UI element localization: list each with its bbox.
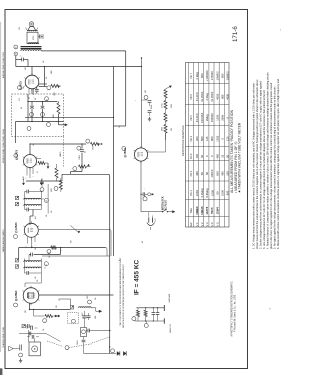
svg-text:a~: a~ [269,306,271,309]
circled ref 21 [111,349,115,353]
svg-text:13: 13 [46,200,48,202]
dashed enclosure filter section [12,94,64,137]
svg-text:C16: C16 [19,98,21,101]
electrolytic C16A [31,102,33,106]
svg-text:V 4: V 4 [210,222,214,227]
svg-text:600: 600 [215,171,219,176]
tube V2 12BA6 [24,223,38,237]
wire right loop [60,248,62,255]
svg-text:T2: T2 [43,198,45,200]
circled ref V3 [14,154,18,158]
capacitor C19 line bypass [141,193,143,195]
wire divider to rectifier [165,133,167,152]
power plug prongs [148,218,150,223]
ground arrow R2 [58,315,59,317]
svg-text:3: 3 [44,322,46,323]
svg-text:PM: PM [19,27,21,30]
svg-text:CHASSIS 25BR-1542B: CHASSIS 25BR-1542B [2,327,5,348]
wire B plus right column [141,58,143,148]
tube V3 12AT6 [24,155,37,168]
circled ref 22 [132,317,136,321]
svg-text:Tube: Tube [190,207,193,213]
svg-text:+: + [144,188,146,190]
resistance readings table grid [186,63,230,228]
svg-text:GANG ANT: GANG ANT [168,294,171,303]
svg-text:.02: .02 [43,61,45,63]
resistor R10 vertical [59,181,62,190]
dashed gang link [47,341,63,347]
svg-text:600: 600 [221,73,225,78]
wire T2 right vertical [47,184,49,214]
svg-text:.05: .05 [37,280,39,282]
wire y181 AF line [26,180,62,182]
svg-text:40-40: 40-40 [151,105,153,109]
T1 slug bottom [15,265,18,268]
capacitor C3 in line [28,332,30,336]
svg-text:.05: .05 [95,298,97,300]
svg-text:171-6: 171-6 [232,26,239,42]
T2 secondary coil [24,205,42,206]
circled ref V1 [14,303,18,307]
svg-text:Ⓟ 12BA6: Ⓟ 12BA6 [14,222,18,233]
scan edge mark bottom-left [0,369,2,375]
svg-text:6.8Meg: 6.8Meg [205,188,209,197]
svg-text:460: 460 [221,171,225,176]
svg-text:660: 660 [210,136,214,141]
svg-text:AVC: AVC [34,215,37,219]
long wire heater bus [16,66,142,68]
wire osc to arrow [91,307,96,309]
wire grid line y144 [30,143,86,145]
svg-text:10MEG: 10MEG [225,71,229,80]
wire V2 cathode down [31,239,33,247]
svg-text:~-: ~- [279,28,282,31]
resistor R12 vertical [164,90,167,99]
dashed link to tuning [69,344,92,348]
circled ref 1 [19,353,23,357]
capacitor C7 below tube [41,178,43,182]
svg-text:22K: 22K [59,297,61,301]
dashed box osc [67,313,78,324]
svg-text:AIRLINE 25BR-1542B CONT.: AIRLINE 25BR-1542B CONT. [2,51,5,78]
svg-text:Ⓢ 35W4: Ⓢ 35W4 [123,148,127,158]
circled ref 15C [47,123,51,127]
svg-text:1000: 1000 [162,127,164,131]
svg-text:T1: T1 [45,267,47,269]
svg-text:7: 7 [34,97,36,98]
V4 pin 4 stub [28,89,30,94]
resistor R9 with arrow [51,85,60,88]
svg-text:V 5: V 5 [215,222,219,227]
svg-text:100: 100 [225,171,229,176]
svg-text:2: 2 [67,349,69,350]
dashed link box to volume [63,137,65,168]
ground arrow left T2 [23,179,25,183]
circled ref 20 [71,319,75,323]
T1 secondary coil [24,267,42,268]
svg-text:0: 0 [210,155,214,157]
svg-text:1300: 1300 [215,114,219,120]
svg-text:© Howard W. Sams & Co., Inc. 1: © Howard W. Sams & Co., Inc. 1952 [234,294,237,332]
osc coil winding [79,307,92,308]
svg-text:30: 30 [21,107,23,109]
wire to resistor [39,86,47,88]
scan edge strip left [0,22,1,352]
svg-text:6. Measured with volume contr: 6. Measured with volume control at maxim… [277,78,280,249]
circled ref T1 [44,262,48,266]
capacitor C4 plates [82,315,86,317]
T2 primary coil [24,198,42,199]
svg-text:SPKR: SPKR [33,35,35,40]
svg-text:.047: .047 [145,90,147,93]
capacitor C9 [30,253,32,257]
T3 primary coil [28,43,38,44]
wire osc box down [83,337,85,340]
svg-text:4050: 4050 [225,93,229,99]
svg-text:470: 470 [25,67,27,70]
svg-text:220: 220 [35,247,37,250]
svg-text:100K: 100K [51,69,53,74]
circled ref 17 speaker plug [14,45,18,49]
T3 core laminations [21,46,42,48]
svg-text:2 Meg: 2 Meg [205,93,209,101]
circled ref 16 [27,127,31,131]
wire bus vertical x109.7 [109,176,111,354]
svg-text:260: 260 [195,136,199,141]
capacitor C8 bottom [25,272,27,274]
wire bus horizontal y174.3 [62,174,110,176]
wire bottom b-minus [84,353,117,355]
T1 primary coil [24,261,42,262]
T1 slug top [15,259,18,262]
svg-text:12AT6: 12AT6 [205,206,209,214]
svg-text:Ⓞ 12BE6: Ⓞ 12BE6 [14,290,18,301]
svg-text:43.2K0: 43.2K0 [195,113,199,122]
svg-text:Pin 5: Pin 5 [190,114,193,120]
arrow top of divider [166,87,171,90]
tube V1 12BE6 [23,288,39,304]
svg-text:12: 12 [49,252,51,254]
svg-text:100K0: 100K0 [210,169,214,177]
svg-text:0: 0 [205,155,209,157]
svg-text:Ⓥ 50C5: Ⓥ 50C5 [19,81,23,90]
svg-text:330: 330 [25,310,27,313]
svg-text:50: 50 [35,98,37,100]
arrow line bypass [151,193,152,195]
antenna coupling cap [19,345,21,351]
svg-text:150000: 150000 [210,113,214,122]
svg-text:22K0: 22K0 [195,189,199,196]
circled ref 25 [143,197,147,201]
svg-text:12: 12 [119,126,121,128]
wire AC switch [141,211,163,213]
svg-text:280k: 280k [221,114,225,120]
gang rail bottom terminal [163,318,165,323]
svg-text:SW: SW [71,240,73,243]
bus wire y256 [42,255,110,257]
svg-text:THE COMPONENTS OF THIS RECEIVE: THE COMPONENTS OF THIS RECEIVER HAVE BEE… [119,257,122,326]
svg-text:A PHOTOFACT STANDARD NOTATION: A PHOTOFACT STANDARD NOTATION SCHEMATIC [231,281,234,337]
wire exit left down [15,122,17,144]
volume control R5 [81,160,83,167]
resistor R14 vertical [164,113,167,122]
svg-text:2: 2 [21,56,23,57]
T2 side wire left [24,192,26,210]
T1 side wire left [24,259,26,274]
svg-text:1000: 1000 [221,190,225,196]
svg-text:460: 460 [215,154,219,159]
circled ref 11 [45,97,49,101]
wire bus join [114,125,126,127]
vertical wire plate feed [44,67,46,87]
svg-text:SERVICE ACCESS IF MOUNTED AS S: SERVICE ACCESS IF MOUNTED AS SHOWN ON TH… [122,263,125,328]
tube V4 50C5 [25,75,39,89]
svg-text:11: 11 [46,264,48,266]
ground antenna [20,359,22,361]
diode load parts right of tube [37,158,42,160]
svg-text:AC: AC [141,240,144,243]
T2 side wire right [40,192,42,210]
V4 pin 7 stub [33,89,35,95]
resistor R13 vertical [164,101,167,110]
capacitor C17 [142,99,148,101]
rectifier mark A [117,352,120,356]
wire bottom bus of box [16,121,64,123]
svg-text:.05: .05 [46,215,48,217]
svg-text:35W4: 35W4 [215,207,219,215]
svg-text:AC PLUG: AC PLUG [165,200,168,211]
svg-text:1000: 1000 [210,190,214,196]
wire V4 plate up [31,67,33,76]
svg-text:0: 0 [221,138,225,140]
svg-text:7: 7 [36,245,38,246]
svg-text:12BA6: 12BA6 [200,206,204,215]
bus wire y229.5 [39,229,110,231]
circled ref 19 [88,300,92,304]
svg-text:+: + [135,100,137,101]
circled ref V5 [122,147,126,151]
gang section cap A [152,308,154,313]
capacitor C14 below tube [36,88,38,90]
wire V5 down [140,161,142,212]
svg-text:Pin 1: Pin 1 [190,190,193,196]
gang section cap B [157,308,159,313]
svg-text:33: 33 [221,154,225,157]
svg-text:150: 150 [23,86,25,89]
svg-text:12BE6: 12BE6 [195,206,199,215]
wire V3 plate up [29,144,31,154]
svg-text:60: 60 [200,172,204,175]
svg-text:660: 660 [200,136,204,141]
wire switch area [71,226,80,234]
svg-text:1305: 1305 [215,135,219,141]
svg-text:1: 1 [20,356,22,357]
capacitor C5 [81,144,83,149]
junction circled ref 9 [47,86,51,90]
wire plug down [15,56,17,67]
svg-text:1300: 1300 [171,104,173,108]
circled ref 14 [144,95,148,99]
capacitor C1a [26,327,29,329]
capacitor C13 bottom [25,209,27,211]
circled ref T2 [44,198,48,202]
svg-text:2 Meg: 2 Meg [195,72,199,80]
switch lever [163,209,167,212]
circled ref 15B [41,113,45,117]
svg-text:Ⓤ 12AT6: Ⓤ 12AT6 [15,149,19,160]
svg-text:10MEG: 10MEG [215,71,219,80]
T1 side wire right [40,259,42,274]
svg-text:8: 8 [42,191,44,192]
svg-text:150.9K4: 150.9K4 [200,112,204,123]
wire volume to bus [71,171,83,173]
circled ref 5 [77,146,81,150]
svg-text:50C5: 50C5 [210,207,214,214]
svg-text:150: 150 [195,154,199,159]
svg-text:1: 1 [25,178,27,179]
svg-text:50: 50 [225,154,229,157]
T3 secondary coil [21,50,41,51]
circled ref V2 [14,235,18,239]
svg-text:OSC: OSC [82,312,84,316]
svg-text:9: 9 [49,89,51,90]
T2 slug top [15,196,18,199]
svg-text:INTERLOCK: INTERLOCK [161,196,164,210]
wire y283 [25,282,41,284]
circled ref 3 [43,319,47,323]
wire y309.5 long [30,309,71,311]
circled ref 10 [54,187,58,191]
osc coil slug [70,306,73,309]
svg-text:170000: 170000 [210,71,214,80]
B+ arrow out of box [58,122,60,125]
wire AVC bus horizontal [25,116,114,118]
capacitor osc out [87,329,89,333]
wire T2 to V2 grid [32,210,34,217]
svg-text:6: 6 [88,142,90,143]
svg-text:60: 60 [215,191,219,194]
svg-text:7: 7 [75,170,77,171]
T2 slug bottom [15,202,18,205]
resistor mark right of C4 [88,313,90,316]
V3 pin stubs [26,167,28,175]
gang rail top [136,307,164,309]
wire V4 cathode down into dashed box [31,89,33,94]
circled ref 6 [86,139,90,143]
svg-text:Pin 3: Pin 3 [190,153,193,159]
svg-text:2Meg: 2Meg [205,114,209,121]
svg-text:41.2K0: 41.2K0 [195,92,199,101]
svg-text:GANG OSC: GANG OSC [169,323,172,333]
arrow AC out [167,211,172,213]
svg-text:150K: 150K [54,91,56,96]
svg-text:880: 880 [221,94,225,99]
circled ref 18 [14,52,18,56]
wire bus corner down [125,51,127,126]
svg-text:.05: .05 [85,151,87,153]
svg-text:.02: .02 [46,77,48,79]
resistor R7 vertical [55,168,58,178]
circled ref 24 [148,193,151,196]
svg-text:.01: .01 [33,144,35,146]
svg-text:.005: .005 [95,316,97,319]
speaker mounting screw [29,22,33,26]
svg-text:.01: .01 [43,329,45,331]
osc slug box [22,324,25,327]
speaker cone [28,27,37,32]
svg-text:V 3: V 3 [205,222,209,227]
svg-text:2.2Meg: 2.2Meg [200,188,204,197]
svg-text:47: 47 [37,171,39,173]
ground arrow det [47,163,49,166]
gang trimmer coil B [145,308,147,310]
svg-text:40: 40 [29,97,31,99]
wire osc grid y333.5 [19,333,46,335]
svg-text:WARDS AIRLINE RADIO: WARDS AIRLINE RADIO [2,229,5,252]
svg-text:GANG: GANG [76,340,79,345]
capacitor C1b [27,336,30,338]
resistor R15 vertical [164,125,167,134]
resistor R6 with arrow [91,143,100,146]
capacitor C2 [25,325,27,327]
svg-text:Pin 7: Pin 7 [190,72,193,78]
svg-text:41.35K0: 41.35K0 [210,91,214,102]
svg-text:Pin 6: Pin 6 [190,93,193,99]
svg-text:220: 220 [171,128,173,131]
loop antenna turns [32,346,38,352]
wire V1 cathode down [29,303,31,309]
wire grid line y299 [60,298,71,300]
tube V5 35W4 [134,148,147,161]
capacitor C12 top [25,191,27,193]
wire y247 screen [19,247,106,249]
resistor R11 vertical [57,103,60,114]
svg-text:★ TAKEN WITH VACUUM TUBE VOLT: ★ TAKEN WITH VACUUM TUBE VOLT METER [238,122,242,193]
svg-text:117V: 117V [155,217,157,222]
resistor R2 with arrow [41,315,45,317]
svg-text:460: 460 [195,171,199,176]
V2 pin stubs [27,237,29,244]
wire cathode to R2 [33,310,35,317]
svg-text:17: 17 [16,47,18,49]
svg-text:Pin 2: Pin 2 [190,170,193,176]
gang rail bottom [135,320,164,322]
circled ref 12 [47,250,51,254]
circled ref 23 [144,324,148,328]
svg-text:V 1: V 1 [195,222,199,227]
svg-text:Pin 4: Pin 4 [190,135,193,141]
svg-text:7: 7 [33,176,35,177]
circled ref V4 [18,86,22,90]
svg-text:Item: Item [190,222,193,227]
capacitor C20 across primary [39,35,41,39]
svg-text:IF = 455 KC: IF = 455 KC [134,259,141,295]
loop antenna frame [29,342,40,356]
svg-text:4050: 4050 [215,93,219,99]
wire bus vertical x113.5 [113,67,115,257]
gang rail top terminal [163,305,165,311]
svg-text:4.7K0: 4.7K0 [162,104,164,108]
wire loop top [34,339,36,343]
svg-text:RESISTANCE READINGS: RESISTANCE READINGS [181,125,185,156]
svg-text:10MEG: 10MEG [60,151,62,157]
svg-text:V 2: V 2 [200,222,204,227]
svg-text:50: 50 [200,154,204,157]
ground C18 [149,117,151,119]
page border frame [5,10,248,369]
svg-text:125: 125 [205,136,209,141]
svg-text:125: 125 [225,136,229,141]
